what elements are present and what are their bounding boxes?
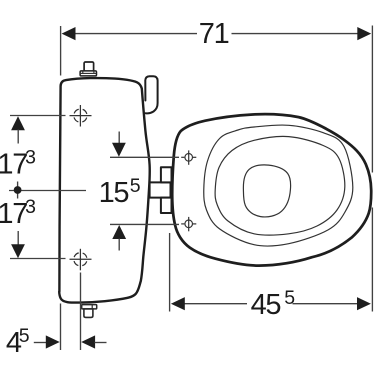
flush hook at cistern right — [145, 76, 157, 113]
dimension right extension line lower — [371, 208, 373, 312]
outlet fitting under cistern — [82, 305, 97, 309]
inlet valve on cistern top — [84, 62, 94, 71]
dimension 45.5 left arrow — [171, 297, 185, 310]
dimension 17.3 lower arrow — [17, 231, 19, 246]
seat hinge middle block — [150, 182, 171, 197]
dimension 4.5 line left segment — [34, 342, 47, 344]
bowl top view outline stroke — [172, 114, 371, 265]
dimension 4.5 line right segment — [95, 342, 107, 344]
cistern fixing point lower crosshair — [70, 249, 92, 270]
seat fixing line lower — [110, 223, 179, 225]
dimension 45.5 left extension line — [169, 233, 171, 312]
dimension 15.5 down arrow — [118, 132, 120, 145]
seat outer ring — [204, 125, 353, 246]
dimension 17.3 upper arrow — [11, 116, 25, 130]
dimension 45.5 line left segment — [184, 303, 247, 305]
seat inner ring — [215, 136, 345, 235]
seat hinge lower block — [161, 198, 172, 213]
dimension 71 left arrow — [62, 27, 76, 40]
fixing line lower — [10, 258, 66, 260]
dimension 4.5 left-pointing arrow — [81, 335, 95, 348]
water surface blob — [243, 165, 290, 217]
seat fixing hole lower crosshair — [181, 217, 196, 231]
dimension 71 right arrow — [357, 27, 371, 40]
dimension 15.5 up arrow — [112, 225, 126, 239]
dimension right extension line upper — [371, 26, 373, 173]
seat fixing hole upper crosshair — [181, 150, 196, 164]
cistern side view outline — [59, 78, 150, 303]
centre line with dot — [9, 190, 86, 192]
svg-text:71: 71 — [199, 18, 229, 50]
dimension 71 line left segment — [75, 33, 198, 35]
wall plane line for 4.5 — [60, 304, 62, 351]
dimension 71 line right segment — [232, 33, 359, 35]
seat hinge upper block — [161, 167, 172, 182]
dimension 45.5 line right segment — [293, 303, 359, 305]
fixing line upper — [10, 115, 66, 117]
dimension 71 left extension line — [60, 26, 62, 76]
cistern fixing point upper crosshair — [70, 105, 92, 127]
dimension 45.5 right arrow — [357, 297, 371, 310]
bowl top view white fill — [172, 114, 371, 265]
fixing axis line for 4.5 — [80, 273, 82, 351]
seat fixing line upper — [110, 156, 179, 158]
dimension 4.5 right-pointing arrow — [46, 335, 60, 348]
